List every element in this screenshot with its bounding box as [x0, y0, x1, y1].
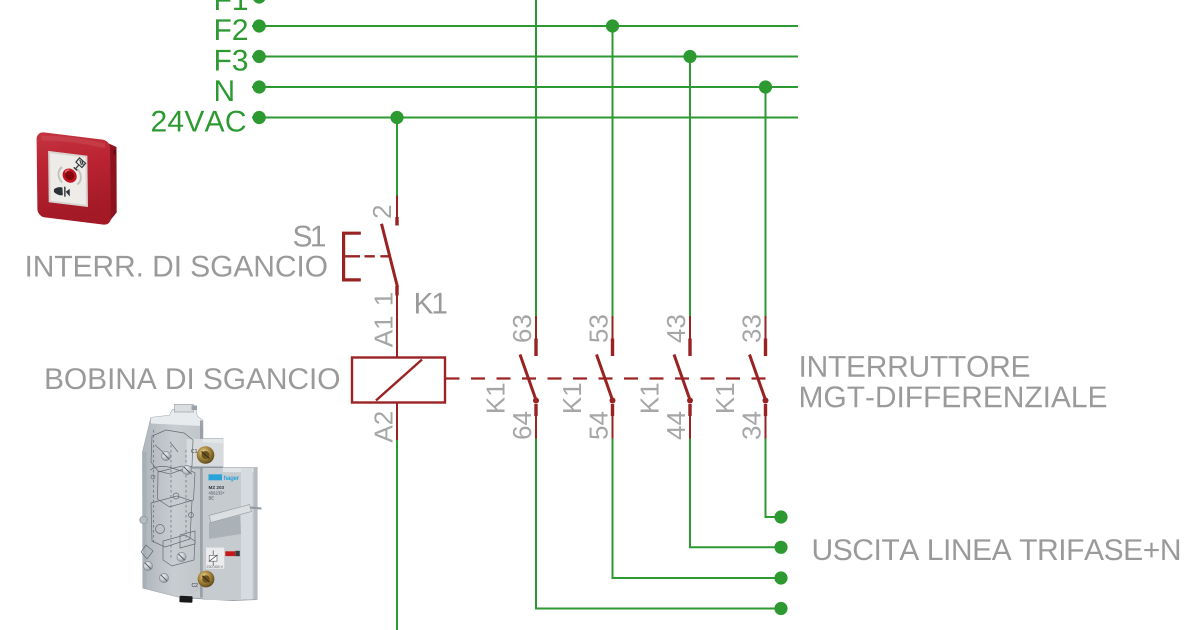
svg-text:C2: C2 — [192, 583, 199, 589]
svg-text:hager: hager — [224, 476, 240, 482]
svg-text:MZ 203: MZ 203 — [209, 485, 225, 490]
svg-text:230-400 V: 230-400 V — [207, 565, 224, 569]
svg-text:BE: BE — [209, 495, 215, 500]
svg-text:C1: C1 — [191, 449, 198, 455]
